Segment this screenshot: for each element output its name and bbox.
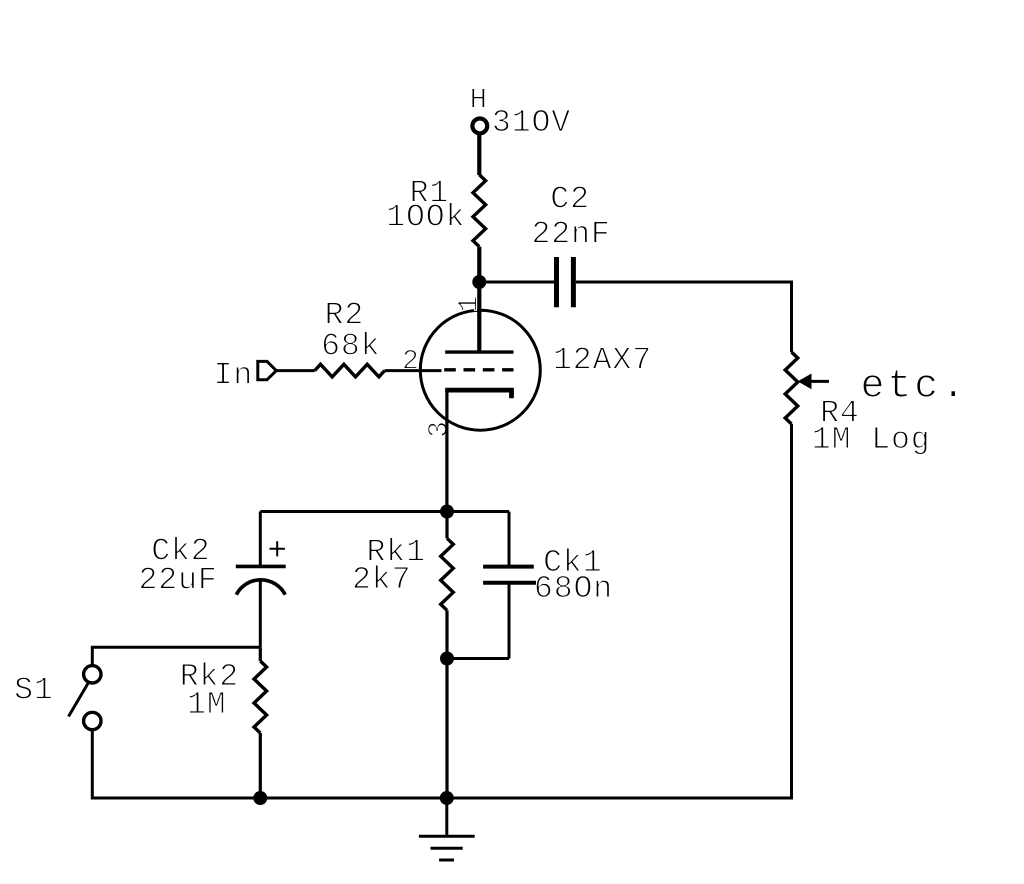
wire R4 to bottom rail <box>447 424 792 798</box>
svg-text:1M Log: 1M Log <box>812 423 931 458</box>
svg-text:In: In <box>214 358 254 393</box>
potentiometer R4 <box>785 352 798 424</box>
node rail-ground junction dot <box>440 791 454 805</box>
wire S1 top to Ck2/Rk2 junction <box>92 647 260 665</box>
svg-text:C2: C2 <box>550 183 590 218</box>
grid dashed line <box>444 368 513 371</box>
wire node K2 to rail <box>445 659 448 799</box>
bottom ground rail <box>260 797 447 800</box>
pin 3 cathode lead <box>445 390 448 511</box>
svg-text:H: H <box>470 84 487 117</box>
svg-text:1OOk: 1OOk <box>386 201 465 236</box>
Ck2 plus sign <box>270 541 285 556</box>
svg-text:68On: 68On <box>534 572 613 607</box>
svg-text:1M: 1M <box>187 688 227 723</box>
triode U1 envelope <box>420 310 540 430</box>
wire node K horizontal <box>260 510 509 513</box>
svg-text:22nF: 22nF <box>532 218 611 253</box>
node H terminal <box>472 119 487 134</box>
svg-text:2k7: 2k7 <box>352 563 411 598</box>
resistor Rk2 <box>254 647 267 798</box>
wire to Ck1 top <box>508 512 511 567</box>
node rail-Rk2 junction dot <box>253 791 267 805</box>
capacitor Ck1 <box>447 567 536 659</box>
resistor Rk1 <box>441 512 454 659</box>
svg-text:etc.: etc. <box>861 365 969 410</box>
resistor R2 <box>315 364 385 377</box>
anode plate bar <box>445 350 513 353</box>
wire In to R2 <box>276 369 314 372</box>
svg-text:3: 3 <box>424 421 455 438</box>
wire to Ck2 top <box>259 512 262 567</box>
svg-text:68k: 68k <box>321 330 380 365</box>
node A junction dot <box>472 275 486 289</box>
node K junction dot <box>440 505 454 519</box>
capacitor C2 <box>557 257 574 307</box>
svg-text:12AX7: 12AX7 <box>553 343 652 378</box>
switch S1 <box>69 666 102 730</box>
ground <box>419 798 475 860</box>
pin 1 plate lead <box>477 282 481 352</box>
cathode bar <box>445 390 511 398</box>
svg-text:R2: R2 <box>325 299 365 334</box>
wire node A to C2 <box>479 281 554 284</box>
wire R2 to grid <box>385 369 442 372</box>
wire C2 to R4 corner <box>576 282 792 352</box>
svg-text:31OV: 31OV <box>492 106 571 141</box>
node K2 junction dot <box>440 652 454 666</box>
R4 wiper arrow <box>798 374 829 390</box>
svg-text:2: 2 <box>402 347 419 378</box>
svg-text:S1: S1 <box>14 673 54 708</box>
terminal In <box>258 361 277 379</box>
svg-text:22uF: 22uF <box>139 564 218 599</box>
capacitor Ck2 <box>236 566 286 647</box>
resistor R1 <box>473 175 486 282</box>
wire H to R1 <box>477 134 481 175</box>
wire S1 bottom to rail <box>92 730 260 798</box>
